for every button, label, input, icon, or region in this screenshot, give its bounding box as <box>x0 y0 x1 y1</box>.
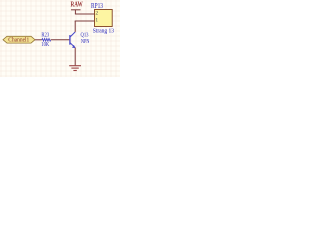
wire RAW stub down <box>74 10 76 14</box>
svg-text:NPN: NPN <box>81 39 90 45</box>
transistor Q13 <box>70 32 76 48</box>
wire emitter down <box>74 48 76 66</box>
resistor R23 <box>42 39 51 42</box>
wire collector to RP13 pin 1 <box>75 20 95 22</box>
ground <box>69 66 81 71</box>
wire to RP13 pin 2 <box>75 13 95 15</box>
component RP13 box <box>95 10 113 27</box>
wire port to R23 <box>35 39 42 41</box>
wire RAW horizontal <box>71 9 81 11</box>
svg-text:Strang 13: Strang 13 <box>93 28 114 35</box>
svg-text:10K: 10K <box>41 42 49 48</box>
wire collector up <box>74 21 76 32</box>
svg-text:Q13: Q13 <box>81 32 89 38</box>
svg-text:Channel1: Channel1 <box>8 37 29 44</box>
port Channel1 <box>3 36 35 43</box>
wire R23 to base <box>51 39 70 41</box>
svg-text:R23: R23 <box>41 32 49 38</box>
svg-text:RAW: RAW <box>71 2 83 9</box>
svg-text:RP13: RP13 <box>91 2 103 10</box>
